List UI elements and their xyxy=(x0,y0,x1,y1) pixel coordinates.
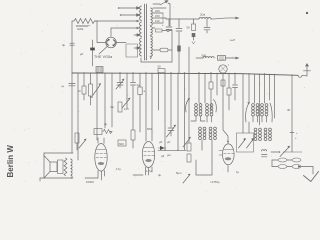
svg-text:4µ: 4µ xyxy=(62,43,66,47)
choke L1 xyxy=(199,13,211,20)
resistor R5 xyxy=(138,73,146,132)
fuse F2 xyxy=(153,48,172,52)
svg-text:4µ: 4µ xyxy=(158,173,162,177)
variable capacitor C9 xyxy=(167,73,177,144)
svg-text:2Ωa: 2Ωa xyxy=(200,13,206,17)
capacitor C8 xyxy=(131,73,141,118)
switch arm left IF1 xyxy=(186,98,190,112)
svg-text:125: 125 xyxy=(124,107,129,111)
resistor R10 xyxy=(75,133,79,150)
svg-text:45: 45 xyxy=(287,108,291,112)
wire tube to winding box xyxy=(116,43,137,58)
capacitor C11 with wire xyxy=(92,40,94,66)
loudspeaker LS xyxy=(40,153,73,181)
svg-text:500: 500 xyxy=(202,54,207,58)
svg-text:500: 500 xyxy=(147,127,152,131)
wire selector vertical xyxy=(170,4,172,62)
svg-text:Berlin W: Berlin W xyxy=(6,145,15,178)
tube V2 xyxy=(142,142,154,176)
svg-text:µF: µF xyxy=(159,140,163,144)
IF transformer 2 coil C lower xyxy=(254,128,261,140)
svg-text:a+P: a+P xyxy=(230,38,235,42)
capacitor C4 block xyxy=(177,46,180,52)
svg-text:µm: µm xyxy=(167,153,172,157)
IF transformer 1 coil D lower xyxy=(209,127,216,139)
tuning capacitor gang box xyxy=(237,133,255,152)
fuse F3 xyxy=(218,56,226,61)
resistor R9 xyxy=(227,73,231,110)
svg-text:+: + xyxy=(296,131,298,135)
svg-text:+: + xyxy=(295,136,297,140)
pickup fuse row 2 xyxy=(272,160,301,169)
wire tube branch xyxy=(97,21,105,43)
wire drop f xyxy=(104,73,106,128)
wire drop ee xyxy=(274,74,276,118)
wire drop l xyxy=(145,73,147,141)
IF2 bottom wires xyxy=(253,116,267,122)
coil L3 with capacitor xyxy=(262,150,268,157)
label 10000 xyxy=(85,178,98,184)
switch arm left IF2 xyxy=(246,74,250,133)
fuse F1 xyxy=(156,29,173,32)
tuning arrow bottom xyxy=(183,174,191,183)
voltage taps right xyxy=(153,8,166,28)
svg-text:5µm: 5µm xyxy=(176,171,182,175)
resistor R7 xyxy=(187,154,191,162)
resistor R8 xyxy=(209,73,213,110)
switch S2 xyxy=(271,136,302,157)
wire drop q xyxy=(177,73,179,150)
svg-text:1µ: 1µ xyxy=(236,170,240,174)
svg-text:Vio: Vio xyxy=(110,105,114,109)
svg-text:f: f xyxy=(228,63,229,67)
svg-text:600: 600 xyxy=(119,142,124,146)
switch arm right IF2 xyxy=(270,74,273,122)
svg-text:50: 50 xyxy=(187,26,191,30)
resistor R2 xyxy=(187,19,196,44)
heater wire xyxy=(158,150,186,157)
choke L2 xyxy=(196,54,214,59)
svg-text:10: 10 xyxy=(78,89,82,93)
resistor R12 xyxy=(131,118,135,148)
capacitor C3 xyxy=(176,19,182,73)
svg-text:a0: a0 xyxy=(90,95,94,99)
svg-text:+: + xyxy=(162,23,164,27)
transformer T1 secondary winding xyxy=(151,8,153,59)
svg-text:17µ: 17µ xyxy=(116,167,121,171)
wire drop aa xyxy=(254,74,256,103)
wire a- arrow xyxy=(226,57,240,60)
grid components above V1 xyxy=(94,129,112,135)
wire drop o xyxy=(164,73,166,150)
IF transformer 1 coil A xyxy=(195,103,202,116)
mains switch S1 xyxy=(153,1,170,5)
svg-text:110: 110 xyxy=(155,19,160,23)
IF transformer 2 coil D lower xyxy=(264,128,271,140)
IF transformer 1 coil B xyxy=(206,104,213,116)
trimmer arrow V1 xyxy=(79,139,87,148)
wire a+ arrow xyxy=(211,17,240,20)
IF transformer 1 coil C lower xyxy=(199,127,206,139)
capacitor C1 xyxy=(62,43,84,56)
svg-text:50: 50 xyxy=(158,65,162,69)
IF1 bottom wires xyxy=(191,116,212,162)
transformer T1 primary winding xyxy=(140,6,142,56)
wire left vertical to bus xyxy=(71,21,73,73)
svg-text:≈1750µ: ≈1750µ xyxy=(210,180,220,184)
capacitor C10 xyxy=(233,73,238,100)
title Berlin W xyxy=(6,145,15,178)
capacitor C2 electrolytic xyxy=(162,19,172,30)
IF transformer 2 coil B xyxy=(261,104,268,116)
pickup fuse row 1 xyxy=(272,158,301,162)
svg-text:µ9: µ9 xyxy=(161,154,165,158)
diode arrow V2 xyxy=(158,140,166,158)
svg-text:µF: µF xyxy=(167,140,171,144)
tap arrows secondary lower left xyxy=(134,34,140,49)
wire drop g xyxy=(111,73,113,127)
bottom wire V2 area xyxy=(133,169,182,177)
transformer T1 core xyxy=(145,4,147,60)
wire drop w xyxy=(216,73,218,95)
main bus wire xyxy=(72,73,298,75)
wire drop s xyxy=(188,47,190,143)
IF transformer 2 coil A xyxy=(252,104,259,116)
resistor R11 xyxy=(118,140,126,146)
box on bus xyxy=(158,65,166,73)
output tube V1 xyxy=(95,138,107,180)
wire drop m xyxy=(151,73,153,141)
scan noise xyxy=(3,4,314,192)
trimmer C6 xyxy=(116,73,125,89)
lamp LP1 xyxy=(219,63,229,73)
trimmer C7 xyxy=(122,73,131,108)
wire drop a xyxy=(61,73,75,153)
wire drop t xyxy=(198,73,200,103)
wire drop u xyxy=(204,73,206,103)
wire transformer bottom xyxy=(141,58,172,62)
svg-text:150: 150 xyxy=(155,14,160,18)
svg-text:220: 220 xyxy=(155,9,160,13)
resistor R4 xyxy=(89,73,93,105)
svg-text:GWa: GWa xyxy=(77,27,84,31)
wire drop top cap tube V3 xyxy=(221,73,229,144)
wire drop b xyxy=(77,73,79,160)
dot mark top right xyxy=(306,12,308,14)
tube V3 xyxy=(219,144,234,172)
tuning arrow IF1 xyxy=(183,137,191,147)
wire drop y xyxy=(242,74,244,133)
svg-text:4µ: 4µ xyxy=(104,122,108,126)
wire R1 to tap xyxy=(95,20,137,22)
svg-text:1,7µ: 1,7µ xyxy=(146,169,152,173)
svg-text:a: a xyxy=(144,89,146,93)
svg-text:+µ: +µ xyxy=(61,84,65,88)
capacitor C5 xyxy=(204,19,210,33)
wire drop cc xyxy=(264,74,266,103)
junction dots on bus xyxy=(83,72,292,76)
a+ rail wire xyxy=(166,18,199,19)
svg-text:4µ: 4µ xyxy=(137,83,141,87)
antenna arrow xyxy=(302,63,311,76)
resistor R3 xyxy=(78,73,87,100)
potentiometer P1 xyxy=(93,73,101,140)
earth arrow xyxy=(298,165,319,181)
tap arrows primary left xyxy=(118,7,140,29)
wire to V3 cathode xyxy=(196,160,212,175)
resistor R6 xyxy=(187,143,191,151)
resistor R1 xyxy=(72,19,97,32)
rectifier tube U1 xyxy=(99,28,137,54)
connector hook xyxy=(298,75,302,77)
wire drop r xyxy=(184,73,186,150)
fuse F4 above bus xyxy=(96,67,103,73)
wire drop n xyxy=(158,73,160,110)
wire drop bb xyxy=(259,74,261,125)
wire drop ff xyxy=(287,75,298,152)
resistor R13 xyxy=(110,102,129,112)
svg-text:10000: 10000 xyxy=(86,180,94,184)
switch arm right IF1 xyxy=(214,100,217,113)
svg-text:THE VG5a: THE VG5a xyxy=(94,55,112,59)
